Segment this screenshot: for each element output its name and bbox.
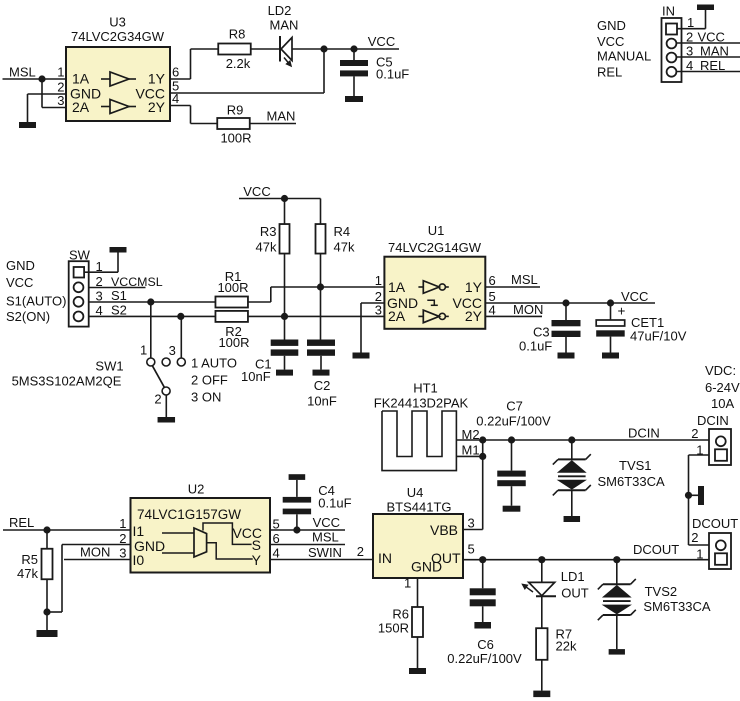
svg-text:2: 2 [691,426,698,441]
svg-text:6-24V: 6-24V [705,380,740,395]
svg-text:S1(AUTO): S1(AUTO) [6,294,66,309]
svg-text:REL: REL [9,515,34,530]
svg-text:1: 1 [119,516,126,531]
svg-text:3: 3 [686,44,693,59]
svg-text:VCC: VCC [243,184,270,199]
svg-text:U4: U4 [407,485,424,500]
svg-text:100R: 100R [218,335,249,350]
svg-text:1: 1 [140,343,147,358]
svg-text:2: 2 [154,392,161,407]
svg-text:5MS3S102AM2QE: 5MS3S102AM2QE [12,374,122,389]
svg-text:R6: R6 [392,607,409,622]
svg-text:1: 1 [687,15,694,30]
svg-text:VCC: VCC [368,34,395,49]
svg-text:MON: MON [80,545,110,560]
svg-text:S: S [252,537,261,553]
svg-text:+: + [618,304,626,319]
svg-text:MAN: MAN [700,44,729,59]
svg-text:S1: S1 [111,288,127,303]
svg-text:SW: SW [69,248,91,263]
svg-text:MAN: MAN [270,18,299,33]
svg-text:1A: 1A [72,71,90,87]
svg-text:VCC: VCC [698,30,725,45]
svg-text:47k: 47k [256,240,277,255]
svg-text:BTS441TG: BTS441TG [386,500,451,515]
svg-text:3: 3 [57,93,64,108]
svg-text:74LVC2G34GW: 74LVC2G34GW [71,29,165,44]
svg-text:IN: IN [662,4,675,19]
svg-text:2: 2 [686,30,693,45]
svg-text:IN: IN [378,550,392,566]
svg-text:C2: C2 [314,378,331,393]
svg-text:5: 5 [468,542,475,557]
svg-text:1: 1 [375,273,382,288]
svg-text:DCIN: DCIN [697,413,729,428]
svg-text:10A: 10A [711,396,734,411]
svg-text:6: 6 [172,65,179,80]
svg-text:M1: M1 [462,443,480,458]
svg-text:REL: REL [597,65,622,80]
svg-text:VCC: VCC [313,515,340,530]
svg-text:1: 1 [57,65,64,80]
svg-text:3: 3 [468,516,475,531]
svg-text:U3: U3 [109,15,126,30]
svg-text:VBB: VBB [430,522,458,538]
svg-text:TVS1: TVS1 [619,458,652,473]
svg-text:LD1: LD1 [561,569,585,584]
svg-text:4: 4 [273,546,280,561]
svg-text:FK24413D2PAK: FK24413D2PAK [374,396,469,411]
svg-text:2 OFF: 2 OFF [191,373,228,388]
svg-text:47k: 47k [17,566,38,581]
svg-text:R8: R8 [229,27,246,42]
svg-text:GND: GND [6,258,35,273]
svg-text:DCOUT: DCOUT [633,542,679,557]
svg-text:3: 3 [375,303,382,318]
svg-text:0.1uF: 0.1uF [376,67,409,82]
svg-text:3: 3 [96,289,103,304]
svg-text:2: 2 [357,544,364,559]
svg-text:0.1uF: 0.1uF [519,339,552,354]
svg-text:0.1uF: 0.1uF [318,496,351,511]
svg-text:LD2: LD2 [268,3,292,18]
svg-text:R4: R4 [334,224,351,239]
svg-text:3: 3 [119,546,126,561]
svg-text:C7: C7 [506,399,523,414]
svg-text:Y: Y [252,552,262,568]
svg-text:SW1: SW1 [95,359,123,374]
svg-text:1: 1 [404,576,411,591]
svg-text:OUT: OUT [561,586,589,601]
svg-text:4: 4 [489,303,496,318]
svg-text:74LVC2G14GW: 74LVC2G14GW [388,240,482,255]
svg-text:2Y: 2Y [148,99,166,115]
svg-text:MON: MON [513,302,543,317]
svg-text:U1: U1 [428,223,445,238]
svg-text:MSL: MSL [312,530,339,545]
svg-text:S2(ON): S2(ON) [6,309,50,324]
svg-text:R3: R3 [260,224,277,239]
svg-text:100R: 100R [220,131,251,146]
svg-text:1Y: 1Y [148,71,166,87]
svg-text:GND: GND [597,18,626,33]
svg-text:MSL: MSL [9,65,36,80]
svg-text:MSL: MSL [511,272,538,287]
svg-text:I1: I1 [133,523,145,539]
svg-text:2: 2 [119,531,126,546]
svg-text:GND: GND [411,559,442,575]
svg-text:22k: 22k [556,639,577,654]
svg-text:S2: S2 [111,303,127,318]
svg-text:VDC:: VDC: [705,363,736,378]
svg-text:2A: 2A [388,308,406,324]
svg-text:SM6T33CA: SM6T33CA [598,474,666,489]
svg-text:2.2k: 2.2k [226,56,251,71]
svg-text:C3: C3 [533,325,550,340]
svg-text:VCCMSL: VCCMSL [111,275,163,289]
svg-text:2: 2 [96,274,103,289]
svg-text:4: 4 [96,303,103,318]
svg-text:2A: 2A [72,99,90,115]
svg-text:100R: 100R [217,280,248,295]
svg-text:I0: I0 [133,552,145,568]
svg-text:3: 3 [169,343,176,358]
svg-text:R5: R5 [21,552,38,567]
svg-text:DCIN: DCIN [628,426,660,441]
svg-text:10nF: 10nF [241,369,271,384]
svg-text:1Y: 1Y [465,279,483,295]
svg-text:1A: 1A [388,279,406,295]
svg-text:VCC: VCC [6,275,33,290]
svg-text:C6: C6 [477,637,494,652]
svg-text:2Y: 2Y [465,308,483,324]
svg-text:VCC: VCC [621,289,648,304]
svg-text:10nF: 10nF [307,394,337,409]
svg-text:R9: R9 [227,103,244,118]
svg-text:1 AUTO: 1 AUTO [191,356,237,371]
svg-text:1: 1 [96,259,103,274]
svg-text:TVS2: TVS2 [645,584,678,599]
svg-text:3 ON: 3 ON [191,390,221,405]
svg-text:0.22uF/100V: 0.22uF/100V [447,651,522,666]
svg-text:MAN: MAN [267,109,296,124]
svg-text:VCC: VCC [597,34,624,49]
svg-text:74LVC1G157GW: 74LVC1G157GW [137,507,241,522]
svg-text:U2: U2 [188,482,205,497]
svg-text:DCOUT: DCOUT [692,516,738,531]
svg-text:REL: REL [700,58,725,73]
svg-text:6: 6 [489,273,496,288]
svg-text:2: 2 [691,530,698,545]
svg-text:HT1: HT1 [413,381,438,396]
svg-text:0.22uF/100V: 0.22uF/100V [476,414,551,429]
svg-text:150R: 150R [378,621,409,636]
svg-text:4: 4 [686,58,693,73]
svg-text:47k: 47k [334,240,355,255]
svg-text:47uF/10V: 47uF/10V [630,329,687,344]
svg-text:SM6T33CA: SM6T33CA [643,599,711,614]
svg-text:SWIN: SWIN [308,545,342,560]
svg-text:MANUAL: MANUAL [597,49,651,64]
